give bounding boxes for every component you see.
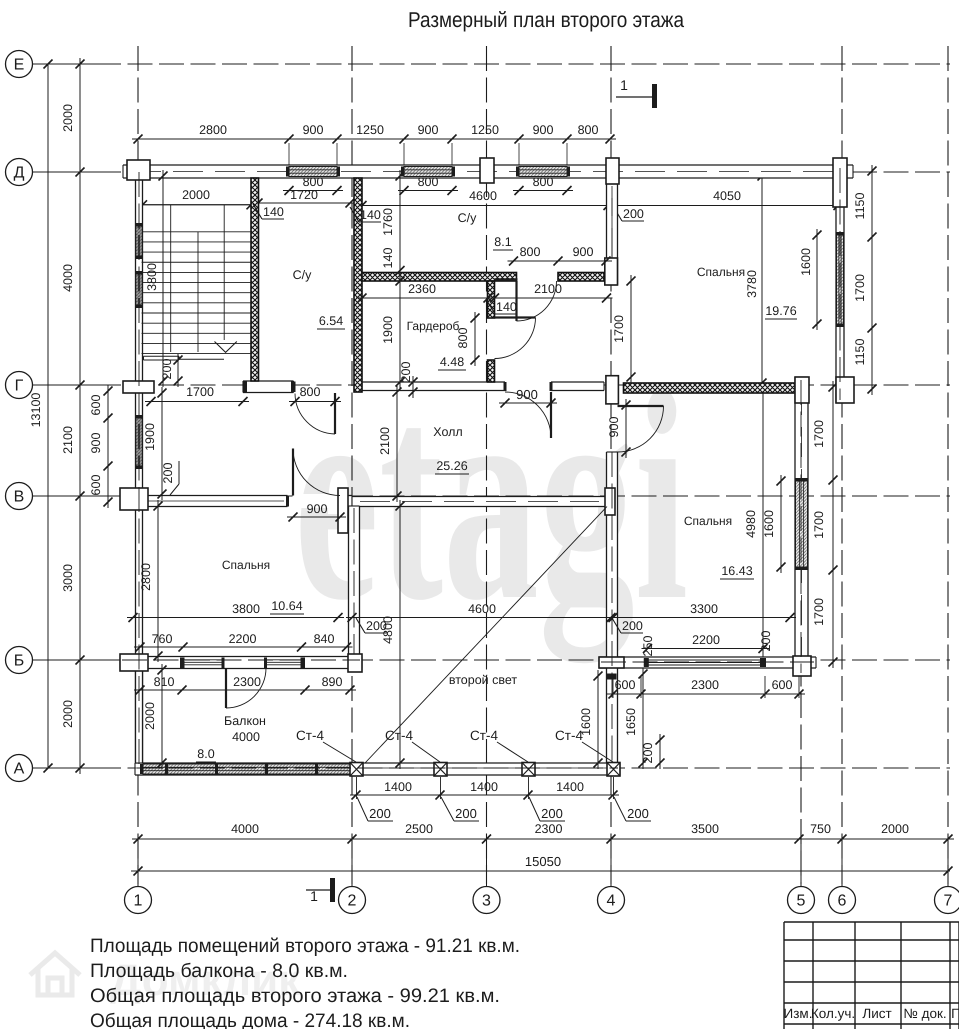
dim 3800 stairs xyxy=(162,170,164,387)
svg-text:3780: 3780 xyxy=(745,270,759,298)
svg-text:Ст-4: Ст-4 xyxy=(555,728,583,743)
svg-text:200: 200 xyxy=(161,463,175,484)
svg-text:800: 800 xyxy=(300,385,321,399)
axis line D xyxy=(33,171,950,173)
window left stairs upper xyxy=(136,226,142,256)
svg-text:750: 750 xyxy=(810,822,831,836)
svg-text:760: 760 xyxy=(152,632,173,646)
svg-text:900: 900 xyxy=(533,123,554,137)
svg-text:2360: 2360 xyxy=(408,282,436,296)
wall right upper (axis 6) xyxy=(836,165,844,403)
svg-text:3000: 3000 xyxy=(61,564,75,592)
wall V left xyxy=(133,496,288,507)
svg-text:140: 140 xyxy=(263,205,284,219)
axis circle 1 xyxy=(125,887,152,914)
column st4 mark 4 xyxy=(607,763,620,777)
svg-text:800: 800 xyxy=(578,123,599,137)
dim left 600-900-600 xyxy=(107,385,109,508)
svg-text:Холл: Холл xyxy=(433,425,462,439)
axis circle Г xyxy=(6,372,33,399)
axis dash in B wall right xyxy=(601,661,814,663)
window D 1 xyxy=(289,167,337,177)
axis line 3 xyxy=(486,46,488,884)
section mark top xyxy=(616,96,652,98)
dim 200 rot bottom xyxy=(659,734,661,769)
jamb below B-4 xyxy=(607,674,617,680)
svg-text:Е: Е xyxy=(14,57,25,74)
dim 2360 xyxy=(356,297,494,299)
window right top 1600 xyxy=(837,235,844,324)
dim 800 hall door2 xyxy=(474,312,476,366)
svg-text:4000: 4000 xyxy=(231,822,259,836)
dim right window top 1600 xyxy=(816,229,818,330)
column st4 mark 3 xyxy=(522,763,535,777)
svg-text:1400: 1400 xyxy=(470,780,498,794)
wall hatch wardrobe top left xyxy=(362,273,517,282)
dim right win 1600 xyxy=(780,475,782,573)
window B right xyxy=(644,659,765,661)
axis line A xyxy=(33,767,950,769)
svg-text:19.76: 19.76 xyxy=(765,304,796,318)
svg-text:200: 200 xyxy=(627,806,649,821)
axis line E xyxy=(33,63,950,65)
column D-3 xyxy=(480,158,494,183)
svg-text:Изм.: Изм. xyxy=(784,1006,813,1021)
svg-text:200: 200 xyxy=(759,631,773,652)
svg-text:1600: 1600 xyxy=(762,510,776,538)
svg-text:3800: 3800 xyxy=(145,263,159,291)
svg-text:1: 1 xyxy=(134,893,143,910)
svg-text:Площадь балкона - 8.0 кв.м.: Площадь балкона - 8.0 кв.м. xyxy=(90,960,348,982)
axis line V xyxy=(33,495,950,497)
svg-text:3800: 3800 xyxy=(232,602,260,616)
axis line 2 xyxy=(351,46,353,884)
wall hatch hall left lower xyxy=(488,360,495,382)
window right 1600 xyxy=(796,481,808,567)
wall right (axis 5) xyxy=(795,377,808,676)
column V-2 xyxy=(338,488,348,533)
witness below st4 xyxy=(440,777,442,799)
door wardrobe xyxy=(495,316,536,318)
witness below st4 xyxy=(356,777,358,799)
svg-text:Общая площадь дома - 274.18 кв: Общая площадь дома - 274.18 кв.м. xyxy=(90,1010,410,1029)
door balcony xyxy=(225,668,227,708)
dim total 13100 xyxy=(47,64,49,768)
svg-text:1250: 1250 xyxy=(356,123,384,137)
axis circle В xyxy=(6,483,33,510)
svg-text:1900: 1900 xyxy=(381,316,395,344)
axis dash in B wall left xyxy=(122,659,360,661)
svg-text:1900: 1900 xyxy=(143,423,157,451)
svg-text:8.0: 8.0 xyxy=(197,747,214,761)
dim 2100 G-V xyxy=(396,386,398,502)
svg-text:1600: 1600 xyxy=(799,248,813,276)
wall B left (axis B) xyxy=(120,657,362,669)
svg-text:200: 200 xyxy=(455,806,477,821)
axis line B xyxy=(33,659,950,661)
svg-text:140: 140 xyxy=(496,300,517,314)
svg-text:1760: 1760 xyxy=(381,208,395,236)
dim 1700 G opening xyxy=(145,401,249,403)
axis dash in axis4 wall xyxy=(611,452,613,762)
column D-4 xyxy=(606,158,619,184)
wall G left band xyxy=(243,381,294,393)
dim 4600 secondlight xyxy=(346,617,617,619)
dim bottom total xyxy=(131,870,950,872)
svg-text:900: 900 xyxy=(573,245,594,259)
svg-text:2800: 2800 xyxy=(139,563,153,591)
svg-text:№ док.: № док. xyxy=(903,1006,946,1021)
svg-text:4000: 4000 xyxy=(232,730,260,744)
dim right top 1150-1700-1150 xyxy=(871,165,873,395)
dim 900 v-door xyxy=(287,516,346,518)
wall axis4 mid line xyxy=(611,198,613,283)
column st4 mark 1 xyxy=(350,763,363,777)
svg-text:6: 6 xyxy=(838,893,847,910)
dim 1700 opening4 xyxy=(630,275,632,383)
svg-text:1700: 1700 xyxy=(853,274,867,302)
wall B right xyxy=(599,657,816,668)
svg-text:2100: 2100 xyxy=(61,426,75,454)
svg-text:С/у: С/у xyxy=(458,211,478,225)
svg-text:Площадь помещений второго этаж: Площадь помещений второго этажа - 91.21 … xyxy=(90,935,520,957)
dim right 1700x3 xyxy=(832,381,834,668)
wall A (bottom) xyxy=(135,763,620,775)
axis dash in right wall5 xyxy=(800,380,802,673)
svg-text:Спальня: Спальня xyxy=(222,558,270,572)
door bedroom right xyxy=(618,405,664,407)
dim window 800 b xyxy=(398,190,458,192)
svg-text:4.48: 4.48 xyxy=(440,355,464,369)
dim window 800 a xyxy=(283,190,343,192)
axis dash in right wall6 xyxy=(839,168,841,400)
svg-text:3: 3 xyxy=(482,893,491,910)
wall hatch su right xyxy=(354,178,362,392)
jamb G2 xyxy=(550,382,553,391)
axis circle 2 xyxy=(339,887,366,914)
axis dash in A wall xyxy=(137,767,618,769)
svg-text:2200: 2200 xyxy=(692,633,720,647)
opening G hall door 900 xyxy=(505,380,551,393)
svg-text:6.54: 6.54 xyxy=(319,314,343,328)
svg-text:Общая площадь второго этажа -: Общая площадь второго этажа - 99.21 кв.м… xyxy=(90,985,500,1007)
svg-text:900: 900 xyxy=(89,433,103,454)
watermark house icon xyxy=(30,953,80,995)
column st4 mark 2 xyxy=(434,763,447,777)
svg-text:Г: Г xyxy=(15,378,24,395)
svg-text:200: 200 xyxy=(622,619,643,633)
svg-text:4600: 4600 xyxy=(468,602,496,616)
dim left column xyxy=(79,58,81,774)
axis circle 7 xyxy=(935,887,959,914)
window left stairs xyxy=(136,274,142,305)
axis circle 4 xyxy=(598,887,625,914)
svg-text:Спальня: Спальня xyxy=(697,265,745,279)
witness top ticks xyxy=(288,143,290,165)
door G su-left xyxy=(334,393,336,434)
svg-text:800: 800 xyxy=(520,245,541,259)
axis line 1 xyxy=(137,46,139,884)
svg-text:С/у: С/у xyxy=(293,268,313,282)
svg-text:2300: 2300 xyxy=(691,678,719,692)
window B left 2 xyxy=(265,659,304,661)
second light diagonal xyxy=(365,507,607,764)
svg-text:А: А xyxy=(14,761,25,778)
axis line 7 xyxy=(947,46,949,884)
svg-text:200: 200 xyxy=(160,359,174,380)
window left G-V xyxy=(136,418,142,466)
axis line 4 xyxy=(610,46,612,884)
svg-text:15050: 15050 xyxy=(525,854,561,869)
column V-4 xyxy=(605,488,615,515)
window D 2 xyxy=(404,167,452,177)
dim 2200 right xyxy=(642,648,770,650)
wall left (axis 1) xyxy=(136,165,143,775)
column B-1 xyxy=(120,654,148,671)
wall stub 140 top xyxy=(495,278,518,280)
svg-text:Ст-4: Ст-4 xyxy=(385,728,413,743)
dim 2800 V-B xyxy=(157,500,159,662)
svg-text:13100: 13100 xyxy=(29,393,43,428)
svg-text:1700: 1700 xyxy=(186,385,214,399)
svg-text:Ст-4: Ст-4 xyxy=(296,728,324,743)
dim 4050 xyxy=(605,205,844,207)
svg-text:250: 250 xyxy=(641,636,655,657)
jamb G2 xyxy=(504,382,507,391)
opening V door 900 xyxy=(293,494,341,508)
svg-text:140: 140 xyxy=(360,208,381,222)
dim window 800 c xyxy=(513,190,573,192)
svg-text:890: 890 xyxy=(322,675,343,689)
column B-5 xyxy=(793,656,811,676)
wall axis4 lower xyxy=(607,452,618,763)
door su upper xyxy=(515,281,517,321)
axis circle 5 xyxy=(788,887,815,914)
door hall G xyxy=(550,392,552,438)
svg-text:2000: 2000 xyxy=(143,702,157,730)
column G-5 xyxy=(795,377,809,403)
wall axis4 top xyxy=(607,178,618,285)
svg-text:2000: 2000 xyxy=(61,104,75,132)
column D-6 xyxy=(833,158,847,207)
svg-text:900: 900 xyxy=(516,387,538,402)
svg-text:1700: 1700 xyxy=(812,420,826,448)
dim 1600 bottom xyxy=(597,670,599,769)
svg-text:Спальня: Спальня xyxy=(684,514,732,528)
svg-text:140: 140 xyxy=(381,248,395,269)
svg-text:2: 2 xyxy=(348,893,357,910)
svg-text:2100: 2100 xyxy=(378,427,392,455)
wall hatch wardrobe top right xyxy=(558,273,604,282)
jamb V xyxy=(286,496,289,507)
svg-text:10.64: 10.64 xyxy=(271,599,302,613)
svg-text:3500: 3500 xyxy=(691,822,719,836)
axis circle Д xyxy=(6,159,33,186)
column B-2 xyxy=(348,654,362,672)
dim 3300 xyxy=(607,617,796,619)
svg-text:2100: 2100 xyxy=(534,282,562,296)
svg-text:200: 200 xyxy=(399,362,413,383)
svg-text:4600: 4600 xyxy=(469,189,497,203)
svg-text:1400: 1400 xyxy=(384,780,412,794)
svg-text:840: 840 xyxy=(314,632,335,646)
dim 900 hall door xyxy=(499,402,557,404)
dim 3800 bed xyxy=(127,617,344,619)
column V-1 xyxy=(120,488,148,510)
svg-text:200: 200 xyxy=(541,806,563,821)
dim 1650 bottom xyxy=(642,668,644,769)
svg-text:В: В xyxy=(14,489,25,506)
svg-text:900: 900 xyxy=(303,123,324,137)
svg-text:1: 1 xyxy=(620,77,628,93)
svg-text:8.1: 8.1 xyxy=(494,235,511,249)
axis circle Б xyxy=(6,647,33,674)
svg-text:1700: 1700 xyxy=(612,315,626,343)
axis line 6 xyxy=(841,46,843,884)
wall hatch hall left upper xyxy=(488,281,495,318)
column axis4 hatch junction xyxy=(605,258,618,285)
svg-text:200: 200 xyxy=(641,743,655,764)
section mark bottom xyxy=(306,889,330,891)
svg-text:600: 600 xyxy=(89,475,103,496)
column G-6 xyxy=(836,377,854,403)
dim 810-2300-890 xyxy=(134,689,356,691)
svg-text:25.26: 25.26 xyxy=(436,459,467,473)
svg-text:2800: 2800 xyxy=(199,123,227,137)
svg-text:7: 7 xyxy=(944,893,953,910)
witness below st4 xyxy=(613,777,615,799)
svg-text:Кол.уч.: Кол.уч. xyxy=(811,1006,855,1021)
column G-1 xyxy=(123,381,154,393)
dim 2000 stairs xyxy=(137,204,258,206)
svg-text:1700: 1700 xyxy=(812,511,826,539)
svg-text:600: 600 xyxy=(772,678,793,692)
svg-text:1720: 1720 xyxy=(290,188,318,202)
svg-text:2000: 2000 xyxy=(61,700,75,728)
dim 800 G door xyxy=(289,401,341,403)
svg-text:900: 900 xyxy=(307,502,328,516)
axis circle 3 xyxy=(473,887,500,914)
dim 800-900 su xyxy=(508,260,613,262)
svg-text:4000: 4000 xyxy=(61,264,75,292)
axis circle А xyxy=(6,755,33,782)
dim 1900 G-V left xyxy=(161,387,163,500)
dim balcony 2000 xyxy=(161,664,163,769)
axis circle 6 xyxy=(829,887,856,914)
wall axis2 (bedroom/secondlight) xyxy=(349,506,360,656)
axis circle Е xyxy=(6,51,33,78)
wall hatch G right xyxy=(624,383,796,393)
svg-text:4050: 4050 xyxy=(713,189,741,203)
wall balcony left piece xyxy=(136,668,143,763)
svg-text:Ст-4: Ст-4 xyxy=(470,728,498,743)
dim 600-2300-600 right xyxy=(607,693,805,695)
wall G mid xyxy=(362,382,604,391)
dim 200 stairs bottom xyxy=(177,354,179,387)
svg-text:второй свет: второй свет xyxy=(449,673,518,687)
witness below st4 xyxy=(528,777,530,799)
svg-text:1: 1 xyxy=(310,888,318,904)
svg-text:4980: 4980 xyxy=(744,510,758,538)
svg-text:1700: 1700 xyxy=(812,598,826,626)
dim top row xyxy=(132,138,616,140)
window balcony front xyxy=(143,764,352,774)
dim right 4980 xyxy=(762,382,764,668)
dim 1760-140-1900 xyxy=(399,170,401,388)
svg-text:600: 600 xyxy=(89,395,103,416)
svg-text:3300: 3300 xyxy=(690,602,718,616)
svg-text:900: 900 xyxy=(607,417,621,438)
svg-text:5: 5 xyxy=(797,893,806,910)
svg-text:1250: 1250 xyxy=(471,123,499,137)
svg-text:2500: 2500 xyxy=(405,822,433,836)
dim 1400x3 xyxy=(350,794,619,796)
axis dash in axis2 wall xyxy=(353,508,355,654)
svg-text:1400: 1400 xyxy=(556,780,584,794)
dim 3780 xyxy=(761,170,763,389)
svg-text:2300: 2300 xyxy=(535,822,563,836)
svg-text:Д: Д xyxy=(14,165,25,182)
svg-text:2300: 2300 xyxy=(233,675,261,689)
wall V right (second light top) xyxy=(352,497,607,507)
wall D (top, axis D) xyxy=(123,165,853,178)
svg-text:2000: 2000 xyxy=(881,822,909,836)
svg-text:200: 200 xyxy=(369,806,391,821)
svg-text:П: П xyxy=(951,1006,959,1021)
svg-text:Балкон: Балкон xyxy=(224,714,266,728)
svg-text:1650: 1650 xyxy=(624,708,638,736)
dim 4800 xyxy=(399,500,401,769)
dim 900 bedroom door xyxy=(625,399,627,458)
svg-text:4800: 4800 xyxy=(381,616,395,644)
dim 2100 hall nook xyxy=(489,297,613,299)
svg-text:16.43: 16.43 xyxy=(721,564,752,578)
wall A inner line xyxy=(135,767,620,769)
window D 3 xyxy=(519,167,567,177)
wall V left stub xyxy=(340,496,352,507)
window B left 1 xyxy=(183,659,224,661)
column B-4 xyxy=(599,657,624,668)
svg-text:200: 200 xyxy=(623,207,644,221)
door bedroom V xyxy=(292,449,294,496)
axis dash in left wall xyxy=(138,172,140,768)
svg-text:Гардероб: Гардероб xyxy=(407,319,460,333)
svg-text:900: 900 xyxy=(418,123,439,137)
dim bottom individual xyxy=(132,838,954,840)
wall hatch stairs right xyxy=(251,178,259,381)
svg-text:Размерный план второго этажа: Размерный план второго этажа xyxy=(408,8,684,32)
dim 200 under G xyxy=(412,376,414,398)
svg-text:600: 600 xyxy=(615,678,636,692)
svg-text:Б: Б xyxy=(14,653,25,670)
svg-text:1150: 1150 xyxy=(853,339,867,366)
column G-4 xyxy=(606,376,619,404)
jamb G band right xyxy=(291,382,296,393)
dim 1720 xyxy=(252,202,356,204)
svg-text:Лист: Лист xyxy=(862,1006,891,1021)
svg-text:2000: 2000 xyxy=(182,188,210,202)
jamb G band left xyxy=(243,382,247,393)
svg-text:810: 810 xyxy=(154,675,175,689)
svg-text:1150: 1150 xyxy=(853,193,867,220)
column D-1 xyxy=(127,160,150,180)
svg-text:4: 4 xyxy=(607,893,616,910)
axis line G xyxy=(33,384,950,386)
dim 760-2200-840 xyxy=(134,646,353,648)
title block table xyxy=(784,921,959,923)
axis line 5 xyxy=(800,630,802,884)
svg-text:2200: 2200 xyxy=(229,632,257,646)
